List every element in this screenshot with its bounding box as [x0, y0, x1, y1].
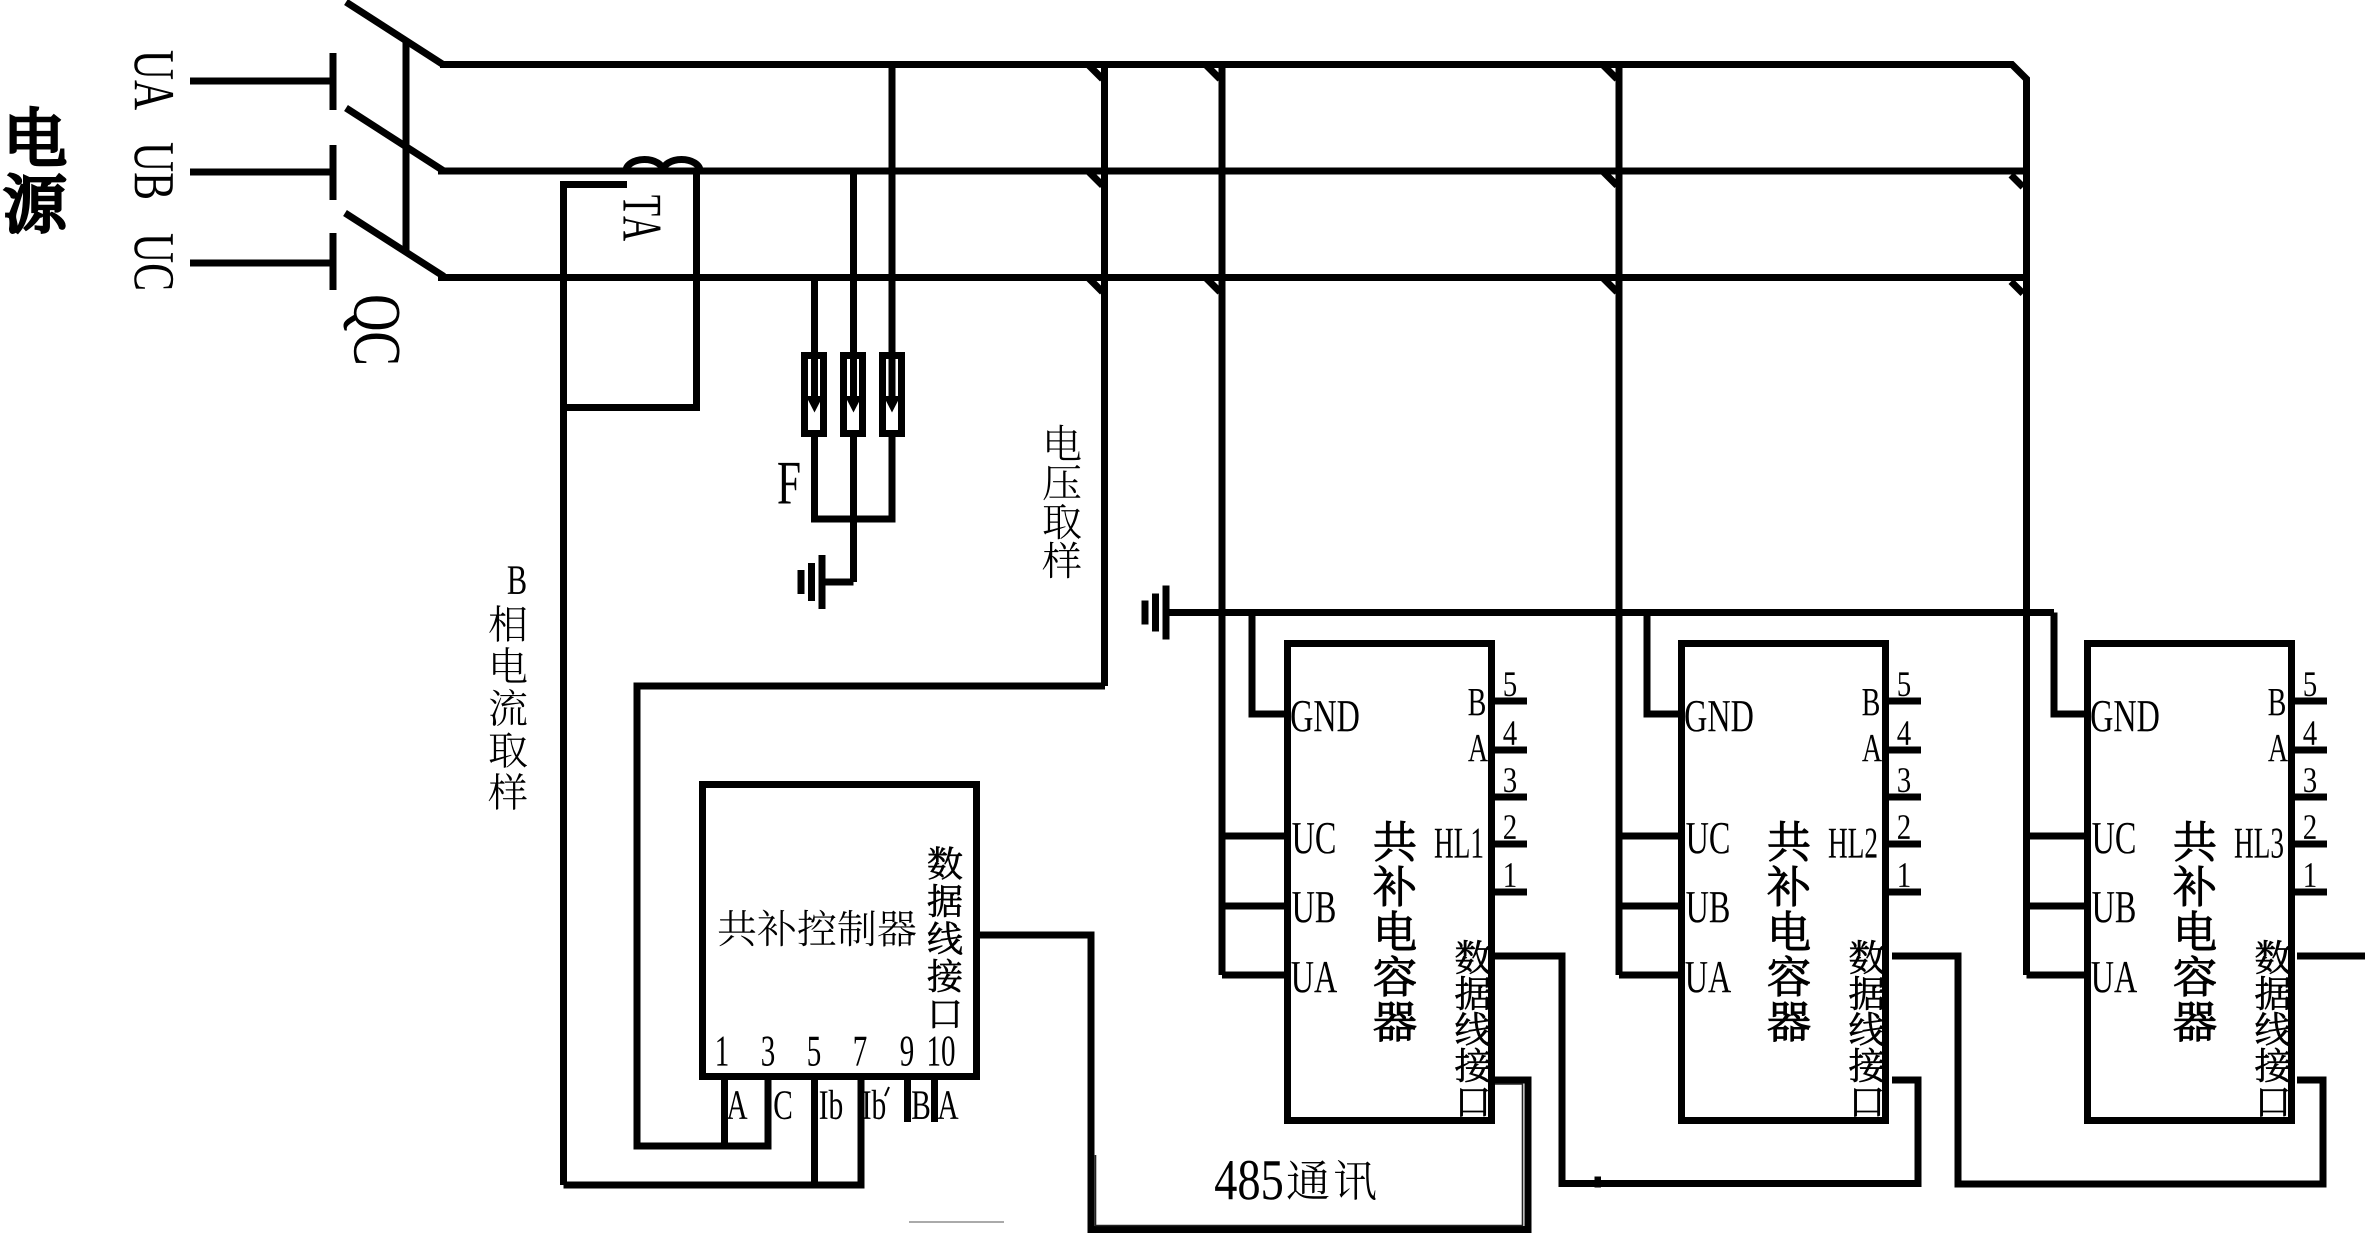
wire bus UC to fuse F1 [811, 278, 818, 399]
controller pin number 10 [929, 1036, 954, 1066]
HL1 designator label [1435, 829, 1483, 858]
junction chamfer bus UC to right riser [2011, 282, 2023, 294]
HL2 pin 5 bar [1889, 698, 1921, 705]
wire voltage-sampling riser [1101, 65, 1108, 687]
wire HL2 phase riser [1616, 65, 1623, 976]
HL1 pin number 2 [1504, 815, 1516, 839]
HL1 pin number 4 [1503, 721, 1516, 745]
HL2 pin 3 bar [1889, 794, 1921, 801]
HL2 pin UB stub [1619, 903, 1678, 910]
wire to fuse ground [822, 579, 854, 586]
HL2 GND dropper wire [1647, 613, 1678, 715]
current transformer TA box bottom edge [560, 404, 700, 411]
switch QC pole C fixed contact [330, 233, 337, 290]
HL2 pin 2 bar [1889, 841, 1921, 848]
switch QC pole B fixed contact [330, 145, 337, 200]
HL1 GND dropper wire [1252, 613, 1284, 715]
HL3 pin label GND [2091, 701, 2158, 732]
HL2 pin UA stub [1619, 972, 1678, 979]
ground symbol (capacitor units) [1163, 586, 1170, 640]
HL3 pin label B [2268, 689, 2285, 715]
wire bus UA to fuse F3 [889, 65, 896, 399]
controller 共补控制器 box [703, 785, 977, 1077]
controller pin label Ib [820, 1090, 842, 1120]
HL2 pin label GND [1685, 701, 1752, 732]
wire UC input [190, 260, 333, 267]
485 communication label 485通讯 [1215, 1161, 1282, 1200]
HL1 pin number 5 [1504, 672, 1516, 696]
HL3 label 共补电容器 [2174, 821, 2216, 1041]
HL3 pin label UC [2092, 823, 2134, 854]
fuse F2 body [844, 356, 863, 434]
HL3 GND dropper wire [2054, 613, 2084, 715]
HL3 pin number 1 [2305, 863, 2315, 887]
HL3 pin 4 bar [2295, 747, 2327, 754]
net label UC (phase C input) [134, 234, 173, 289]
controller label 共补控制器 [719, 910, 756, 946]
current transformer TA box right edge [693, 171, 700, 411]
wire HL1 phase riser [1219, 65, 1226, 976]
HL2 pin label B [1862, 689, 1879, 715]
fuse F3 body [883, 356, 902, 434]
controller pin number 9 [901, 1036, 913, 1066]
HL2 pin number 4 [1897, 721, 1910, 745]
HL1 pin number 3 [1504, 768, 1516, 792]
current transformer TA box left side / B-phase current sampling wire [560, 181, 567, 1185]
controller pin label A (pin 10) [938, 1091, 959, 1119]
controller pin 10 stub [931, 1080, 938, 1122]
HL1 label 共补电容器 [1374, 821, 1416, 1041]
junction chamfer HL2 riser/bus UB [1604, 172, 1618, 186]
controller pin number 1 [717, 1037, 727, 1066]
junction dot on 485 link [1595, 1177, 1602, 1188]
HL2 pin label UC [1686, 823, 1728, 854]
controller pin label Ib' [863, 1090, 885, 1120]
HL3 data interface label 数据线接口 [2255, 940, 2290, 1116]
HL3 pin label A [2268, 735, 2288, 761]
wire bus UB to fuse F2 [850, 171, 857, 398]
HL1 pin 5 bar [1495, 698, 1527, 705]
capacitor unit HL3 box [2088, 644, 2292, 1121]
controller pin 5 stub [811, 1080, 818, 1185]
HL2 pin number 3 [1898, 768, 1910, 792]
wire fuse common bar [811, 516, 896, 523]
wire 485 output of HL3 [2297, 953, 2365, 960]
current transformer TA primary coil [626, 160, 700, 171]
HL3 pin UC stub [2027, 833, 2085, 840]
junction chamfer riser/bus UB [1089, 172, 1103, 186]
HL1 pin UC stub [1222, 833, 1284, 840]
fuse F3 arrowhead [884, 396, 901, 413]
bus UB (phase B busbar) [438, 168, 2026, 175]
HL1 pin label B [1468, 689, 1485, 715]
HL2 pin label A [1862, 735, 1882, 761]
junction chamfer HL2 riser/bus UC [1604, 279, 1618, 293]
wire voltage sampling left riser [634, 683, 641, 1147]
controller pin number 7 [855, 1037, 867, 1066]
current transformer TA label [623, 195, 660, 240]
HL1 pin UA stub [1222, 972, 1284, 979]
HL1 pin label GND [1291, 701, 1358, 732]
HL2 pin label UA [1685, 962, 1731, 993]
wire current sampling to controller pins 5,7 [564, 1182, 865, 1189]
fuse F1 arrowhead [806, 396, 823, 413]
controller pin label B [912, 1091, 929, 1119]
HL1 pin label UC [1292, 823, 1334, 854]
HL2 designator label [1829, 828, 1877, 857]
capacitor unit HL1 box [1288, 644, 1492, 1121]
switch QC blade pole A [346, 2, 443, 65]
controller pin 1 stub [721, 1080, 728, 1146]
HL3 pin number 5 [2304, 672, 2316, 696]
HL1 pin 2 bar [1495, 841, 1527, 848]
HL1 pin label UA [1291, 962, 1337, 993]
HL1 pin 1 bar [1495, 889, 1527, 896]
capacitor unit HL2 box [1682, 644, 1886, 1121]
HL1 pin 3 bar [1495, 794, 1527, 801]
fuse F1 body [805, 356, 824, 434]
net label UA (phase A input) [134, 51, 173, 110]
wire fuse F2 lower lead [850, 437, 857, 582]
HL2 pin number 5 [1898, 672, 1910, 696]
HL2 pin UC stub [1619, 833, 1678, 840]
wire voltage sampling to controller (horizontal) [637, 683, 1105, 690]
switch QC blade pole B [346, 108, 443, 171]
HL2 label 共补电容器 [1768, 821, 1810, 1041]
controller pin 3 stub [765, 1080, 772, 1150]
current transformer TA box top edge [560, 181, 627, 188]
wire UB input [190, 169, 333, 176]
HL2 pin number 1 [1899, 863, 1909, 887]
wire UA input [190, 78, 333, 85]
HL2 pin 4 bar [1889, 747, 1921, 754]
HL1 pin UB stub [1222, 903, 1284, 910]
switch QC pole A fixed contact [330, 53, 337, 110]
wire 485 link inner thin trace [1096, 1084, 1523, 1226]
controller pin 9 stub [904, 1080, 911, 1122]
HL3 pin number 2 [2304, 815, 2316, 839]
HL3 pin 3 bar [2295, 794, 2327, 801]
junction chamfer bus UB to right riser [2011, 175, 2023, 187]
fuse F2 arrowhead [845, 396, 862, 413]
HL3 pin 1 bar [2295, 889, 2327, 896]
HL1 pin label A [1468, 735, 1488, 761]
junction chamfer HL2 riser/bus UA [1604, 66, 1618, 80]
HL2 pin 1 bar [1889, 889, 1921, 896]
junction chamfer riser/bus UA [1089, 66, 1103, 80]
HL1 pin number 1 [1505, 863, 1515, 887]
bus UC (phase C busbar) [438, 274, 2026, 281]
HL3 pin label UA [2091, 962, 2137, 993]
HL1 pin label UB [1292, 892, 1334, 923]
B-phase current sampling label B相电流取样 [508, 566, 526, 594]
controller pin number 3 [762, 1036, 774, 1066]
wire fuse F3 lower lead [889, 437, 896, 519]
HL1 data interface label 数据线接口 [1455, 940, 1490, 1116]
wire 485 link HL2 to HL3 [1892, 956, 2323, 1184]
HL3 pin number 4 [2303, 721, 2316, 745]
wire 485 link HL1 to HL2 [1495, 956, 1918, 1184]
junction chamfer riser/bus UC [1089, 279, 1103, 293]
HL3 pin 2 bar [2295, 841, 2327, 848]
HL3 pin UA stub [2027, 972, 2085, 979]
stray underline mark [909, 1221, 1004, 1223]
switch QC blade pole C [345, 213, 444, 277]
HL2 pin label UB [1686, 892, 1728, 923]
ground bus wire [1166, 609, 2054, 616]
wire 485 link controller to HL1 [980, 935, 1528, 1230]
HL3 pin label UB [2092, 892, 2134, 923]
switch QC linkage bar [403, 40, 410, 253]
fuse group label F [778, 463, 799, 504]
wire fuse F1 lower lead [811, 437, 818, 523]
controller pin 7 stub [858, 1080, 865, 1189]
switch QC label [343, 296, 399, 363]
power source label 电源 [5, 108, 64, 233]
controller pin label C [774, 1091, 791, 1119]
HL1 pin 4 bar [1495, 747, 1527, 754]
net label UB (phase B input) [134, 143, 173, 198]
controller data interface label 数据线接口 [928, 847, 962, 1028]
HL3 pin 5 bar [2295, 698, 2327, 705]
controller pin label A [727, 1091, 748, 1119]
bus UA (phase A busbar) with corner to right riser [440, 65, 2027, 976]
junction chamfer HL1 riser/bus UC [1207, 279, 1221, 293]
HL3 pin UB stub [2027, 903, 2085, 910]
ground symbol (fuse neutral) [819, 555, 826, 609]
HL2 data interface label 数据线接口 [1849, 940, 1884, 1116]
HL3 designator label [2235, 828, 2283, 858]
wire to controller pins 1,3 [634, 1143, 772, 1150]
controller pin number 5 [808, 1037, 820, 1066]
voltage sampling label 电压取样 [1047, 425, 1080, 461]
junction chamfer HL1 riser/bus UA [1207, 66, 1221, 80]
HL3 pin number 3 [2304, 768, 2316, 792]
HL2 pin number 2 [1898, 815, 1910, 839]
